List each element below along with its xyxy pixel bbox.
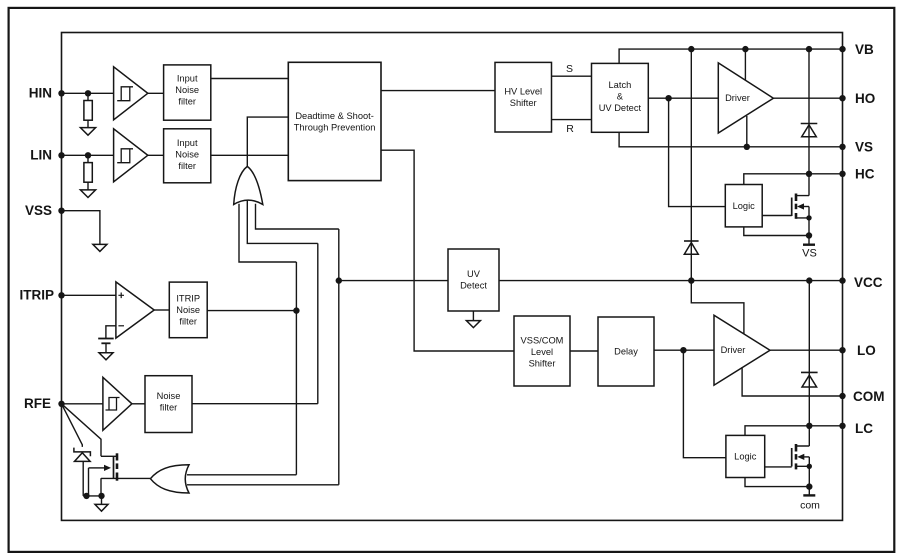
block UV Detect <box>448 249 499 311</box>
node ITRIP junction <box>293 307 299 313</box>
wire deadtime to VSSCOM shifter <box>381 150 514 351</box>
wire high logic gate <box>762 215 792 217</box>
node latch output junction <box>665 95 671 101</box>
wire S <box>552 75 592 77</box>
wire LIN filter to deadtime <box>211 154 288 156</box>
block Latch UV Detect <box>592 63 649 132</box>
svg-text:Noisefilter: Noisefilter <box>157 391 181 413</box>
resistor LIN pulldown <box>84 155 92 190</box>
wire high clamp vertical <box>808 49 810 196</box>
wire low clamp vertical <box>808 281 810 446</box>
wire low logic bottom <box>745 478 809 487</box>
wire RFE to mosfet drain diagonal <box>62 404 102 457</box>
transistor high sink <box>792 194 812 236</box>
wire latch output to driver <box>648 97 718 99</box>
svg-text:InputNoisefilter: InputNoisefilter <box>175 138 199 171</box>
node ITRIP pin <box>58 292 64 298</box>
block HV Level Shifter <box>495 62 552 132</box>
svg-text:HC: HC <box>855 167 875 182</box>
block Deadtime Shoot-Through Prevention <box>288 62 381 180</box>
svg-text:Driver: Driver <box>725 93 750 103</box>
node delay junction <box>680 347 686 353</box>
ground VSS <box>93 244 107 251</box>
node HC pin <box>839 171 845 177</box>
svg-text:Latch&UV Detect: Latch&UV Detect <box>599 80 642 113</box>
wire UV bus down <box>338 229 340 485</box>
wire OR fault input ITRIP <box>187 474 296 476</box>
node RFE ground 1 <box>83 493 89 499</box>
svg-text:S: S <box>566 63 573 75</box>
diode high gate clamp <box>801 124 818 137</box>
node VB pin <box>839 46 845 52</box>
svg-text:VSS: VSS <box>25 203 52 218</box>
gate OR input-combine (vertical) <box>234 166 263 204</box>
block Logic (low) <box>726 435 765 477</box>
node LIN resistor tap <box>85 152 91 158</box>
svg-text:RFE: RFE <box>24 396 51 411</box>
svg-text:HIN: HIN <box>29 85 52 100</box>
node VCC pin <box>839 277 845 283</box>
diode zener RFE <box>74 448 91 496</box>
node HC clamp junction <box>806 171 812 177</box>
svg-text:com: com <box>800 500 820 512</box>
wire driver to HO <box>773 97 842 99</box>
gate OR fault (pointing left) <box>150 465 189 493</box>
node LC pin <box>839 423 845 429</box>
wire LC row <box>745 426 843 436</box>
wire latch bottom to VS rail <box>619 132 842 147</box>
wire HIN row <box>62 92 114 94</box>
node low source <box>806 483 812 489</box>
node LIN pin <box>58 152 64 158</box>
node VCC OR junction <box>336 277 342 283</box>
wire R <box>552 119 592 121</box>
wire VCC to low driver top <box>691 281 744 334</box>
ground RFE cluster <box>95 496 108 511</box>
svg-text:HV LevelShifter: HV LevelShifter <box>504 87 542 109</box>
ground HIN resistor <box>80 128 95 136</box>
wire high logic bottom <box>744 227 809 236</box>
node HIN pin <box>58 90 64 96</box>
svg-text:VS: VS <box>855 140 873 155</box>
wire VB to driver top <box>744 49 746 80</box>
buffer RFE schmitt <box>103 377 132 430</box>
wire shifter to delay <box>570 350 598 352</box>
svg-text:Logic: Logic <box>734 452 757 462</box>
diode low gate clamp <box>801 372 818 387</box>
node VB bootstrap tap <box>688 46 694 52</box>
wire ground link <box>83 495 101 497</box>
node VCC clamp junction <box>806 277 812 283</box>
svg-text:R: R <box>566 123 574 135</box>
wire RFE to zener diagonal <box>62 404 83 447</box>
node HIN resistor tap <box>85 90 91 96</box>
transistor low sink <box>792 444 812 487</box>
svg-text:VCC: VCC <box>854 275 883 290</box>
svg-text:Delay: Delay <box>614 347 638 357</box>
wire HC row <box>744 174 843 185</box>
wire to low logic <box>683 350 726 458</box>
wire bootstrap vertical <box>690 49 692 281</box>
wire low driver bottom to COM <box>742 367 842 396</box>
block Input Noise filter (LIN) <box>164 129 211 183</box>
svg-text:Driver: Driver <box>721 345 746 355</box>
diode bootstrap VB <box>684 241 699 254</box>
amplifier Driver (high side) <box>718 63 773 133</box>
buffer LIN schmitt <box>114 129 148 182</box>
wire to high logic <box>669 98 726 206</box>
IC boundary <box>62 33 843 521</box>
wire ITRIP bus down <box>295 262 297 475</box>
svg-text:VS: VS <box>802 248 817 260</box>
label plus <box>118 293 124 299</box>
wire HIN buffer to filter <box>148 92 164 94</box>
wire HIN filter to deadtime <box>211 78 288 80</box>
wire latch top to VB rail <box>619 49 842 63</box>
svg-text:COM: COM <box>853 389 885 404</box>
wire mosfet source row to OR <box>101 477 150 479</box>
wire RFE row <box>62 403 103 405</box>
node VB driver tap <box>742 46 748 52</box>
svg-text:LO: LO <box>857 343 876 358</box>
node COM pin <box>839 393 845 399</box>
transistor RFE mosfet <box>89 453 118 496</box>
block ITRIP Noise filter <box>169 282 207 338</box>
ground VS (high source) <box>803 236 815 245</box>
wire RFE filter output <box>192 403 318 405</box>
wire low logic gate <box>765 466 792 468</box>
hysteresis glyph HIN <box>117 87 133 101</box>
svg-text:UVDetect: UVDetect <box>460 269 487 291</box>
wire comparator to ITRIP filter <box>154 309 169 311</box>
ground com (low source) <box>803 487 815 496</box>
svg-text:LIN: LIN <box>30 147 52 162</box>
node high source <box>806 232 812 238</box>
svg-text:HO: HO <box>855 91 875 106</box>
svg-text:InputNoisefilter: InputNoisefilter <box>175 74 199 107</box>
wire comparator minus to reference <box>106 326 116 339</box>
svg-text:Deadtime & Shoot-Through Preve: Deadtime & Shoot-Through Prevention <box>294 111 376 133</box>
wire OR input 1 <box>239 204 296 262</box>
svg-text:LC: LC <box>855 421 873 436</box>
node LO pin <box>839 347 845 353</box>
wire OR input 2 <box>247 200 317 243</box>
resistor HIN pulldown <box>84 93 92 127</box>
node RFE pin <box>58 401 64 407</box>
wire RFE buffer to filter <box>132 403 145 405</box>
label minus <box>118 325 124 327</box>
wire ITRIP filter output <box>207 310 296 312</box>
wire VSS to ground <box>62 211 100 245</box>
hysteresis glyph LIN <box>117 149 133 163</box>
wire driver bottom to VS <box>746 116 748 147</box>
wire VCC row right <box>499 280 843 282</box>
block Noise filter (RFE) <box>145 376 192 433</box>
ground LIN resistor <box>80 190 95 198</box>
wire OR fault input UV <box>187 484 339 486</box>
svg-text:ITRIPNoisefilter: ITRIPNoisefilter <box>176 294 200 327</box>
wire VCC row left <box>339 280 448 282</box>
wire deadtime to HV level shifter <box>381 90 495 92</box>
node VSS pin <box>58 208 64 214</box>
ground ITRIP reference <box>99 353 113 360</box>
reference bars <box>98 339 114 353</box>
block VSSCOM Level Shifter <box>514 316 570 386</box>
node VCC bootstrap junction <box>688 277 694 283</box>
svg-text:ITRIP: ITRIP <box>19 288 54 303</box>
node HO pin <box>839 95 845 101</box>
wire ITRIP row <box>62 294 116 296</box>
wire OR output to deadtime <box>247 117 288 166</box>
svg-text:VB: VB <box>855 42 874 57</box>
wire OR input 3 <box>256 204 339 229</box>
svg-text:Logic: Logic <box>733 201 756 211</box>
block Logic (high) <box>725 185 762 227</box>
hysteresis glyph RFE <box>106 398 120 411</box>
svg-text:VSS/COMLevelShifter: VSS/COMLevelShifter <box>521 336 564 369</box>
ground UV Detect <box>466 311 480 328</box>
amplifier Driver (low side) <box>714 315 770 385</box>
buffer HIN schmitt <box>114 67 148 120</box>
node RFE ground 2 <box>98 493 104 499</box>
wire LIN buffer to filter <box>148 154 164 156</box>
wire RFE bus down <box>317 243 319 403</box>
node driver VS tap <box>744 144 750 150</box>
amplifier comparator ITRIP <box>116 282 154 338</box>
node VB clamp tap <box>806 46 812 52</box>
wire driver to LO <box>770 349 843 351</box>
block Delay <box>598 317 654 386</box>
wire delay to driver <box>654 349 714 351</box>
block Input Noise filter (HIN) <box>164 65 211 120</box>
node LC clamp junction <box>806 423 812 429</box>
wire LIN row <box>62 154 114 156</box>
node VS pin <box>839 144 845 150</box>
